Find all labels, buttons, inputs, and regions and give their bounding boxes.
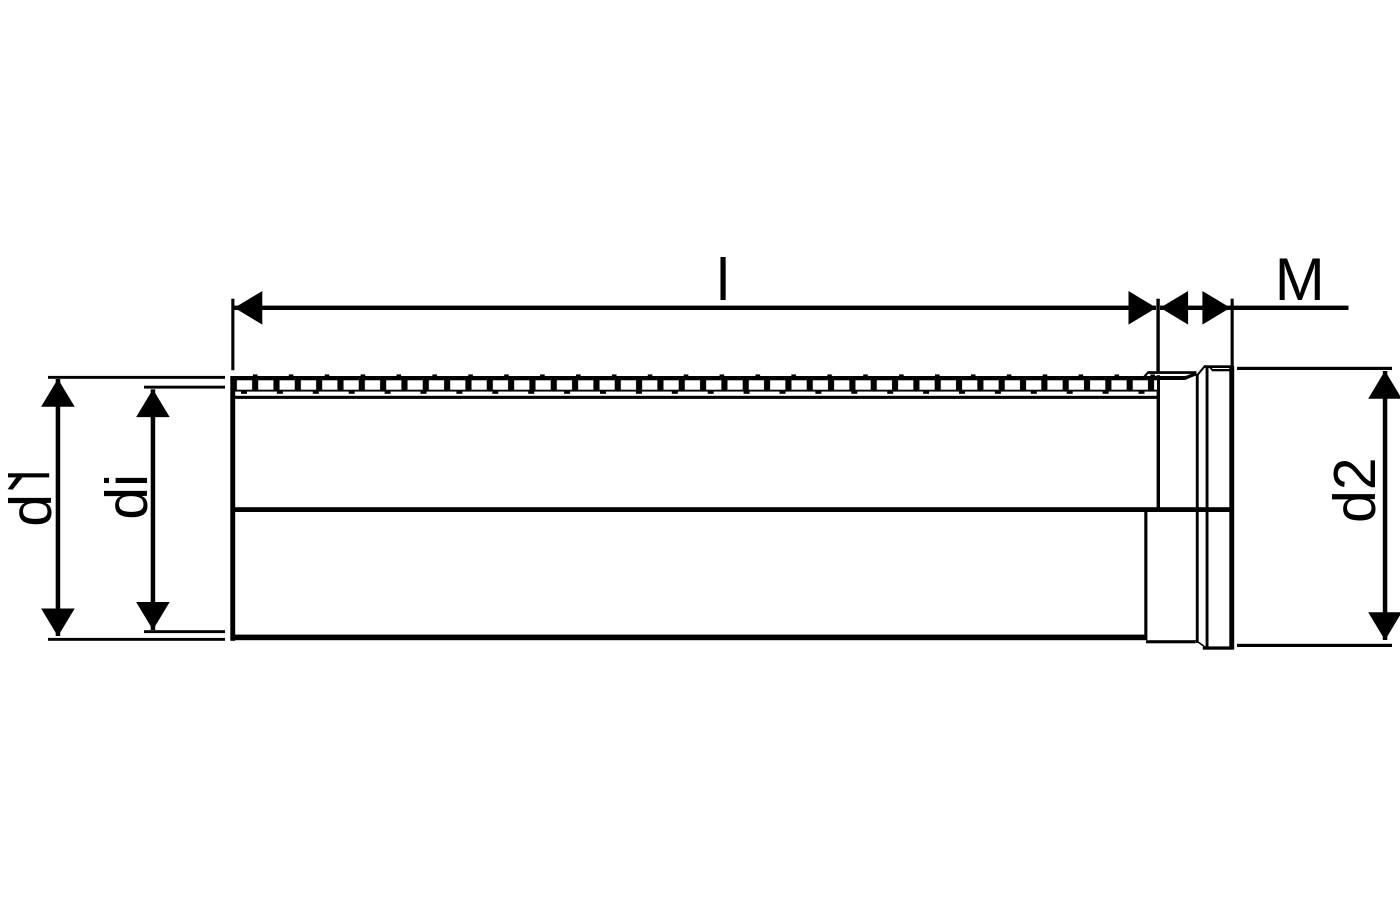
dimension M: dimension line with tail [1160,306,1349,310]
svg-text:d2: d2 [1322,457,1388,523]
label M [1275,246,1325,313]
socket: mouth chamfer diagonal [1209,367,1214,371]
dimension l: right arrowhead [1129,291,1157,325]
label l [716,247,729,313]
dimension d2: bottom arrowhead [1368,612,1400,640]
pipe body: left edge [230,376,235,641]
dimension di: dimension line [151,389,156,630]
socket: inner vertical line v1 [1196,374,1199,643]
pipe wall section: serrated cell band [233,380,1157,392]
dimension d2: bottom extension line [1237,644,1392,647]
socket: mouth inner lip line [1212,369,1232,371]
pipe wall section: lower nubs [236,391,1156,393]
socket: mouth right edge [1229,366,1234,649]
dimension d2: top extension line [1237,367,1392,370]
pipe wall section: upper nubs [236,374,1156,376]
pipe body: bottom outline [233,635,1146,641]
pipe bore line [233,396,1157,399]
dimension l: left arrowhead [234,291,262,325]
socket: outer surface top line [1148,371,1197,374]
socket: outer surface bottom line [1146,640,1196,643]
label di [94,474,160,520]
socket: mouth bottom line [1203,646,1234,649]
pipe end edge in socket [1157,375,1160,510]
dimension di: bottom extension line [144,630,225,633]
dimension M: left arrowhead [1160,291,1188,325]
dimension M: right extension line [1231,299,1234,368]
dimension di: top extension line [144,386,225,389]
dimension d1: dimension line [56,379,61,636]
socket: left chamfer bead [1144,371,1151,376]
socket: mouth top line [1204,365,1234,368]
dimension d2: top arrowhead [1368,371,1400,399]
dimension di: top arrowhead [136,389,170,417]
dimension M: right arrowhead [1202,291,1230,325]
dimension di: bottom arrowhead [136,602,170,630]
label d1 [0,473,64,526]
dimension d2: dimension line [1383,371,1388,640]
dimension d1: bottom extension line [48,638,225,641]
socket: start vertical (lower half) [1144,509,1147,640]
svg-text:l: l [716,247,729,313]
svg-text:M: M [1275,246,1325,313]
socket: inner vertical line v2 [1206,368,1209,647]
svg-text:di: di [94,474,160,520]
pipe body: top outline [233,372,1197,380]
dimension d1: top arrowhead [41,379,75,407]
dimension M: shared extension line [1156,299,1159,372]
label d2 [1322,457,1388,523]
socket: step-down diagonal bottom [1194,640,1205,646]
dimension d1: bottom arrowhead [41,609,75,637]
socket: step-up diagonal to mouth [1195,365,1207,376]
svg-text:d: d [0,494,64,527]
pipe centerline [233,507,1232,512]
dimension l: extension line left [231,299,234,371]
dimension d1: top extension line [48,376,225,379]
dimension l: dimension line [234,306,1156,310]
